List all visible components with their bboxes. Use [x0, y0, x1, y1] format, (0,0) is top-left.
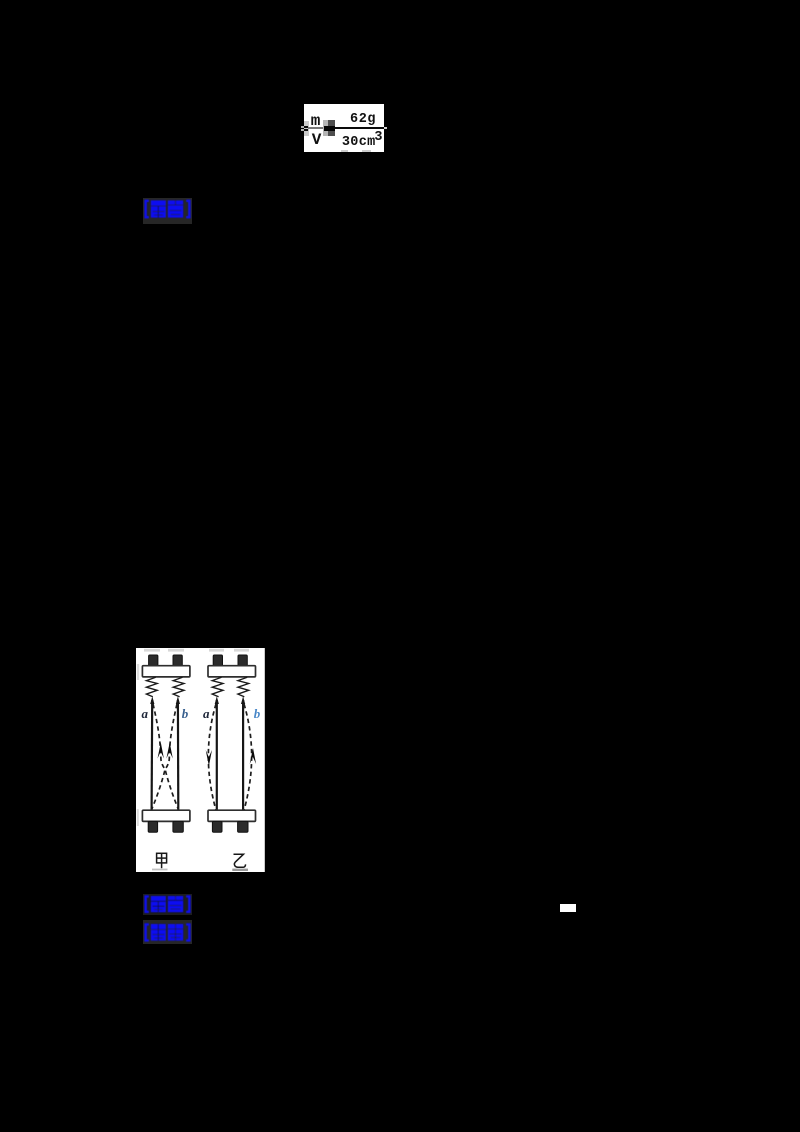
乙 left spring	[212, 677, 223, 696]
caption 乙 (drawn glyph)	[233, 854, 245, 867]
甲 wire a (left vertical wire)	[150, 700, 153, 810]
formula: gray block behind first =	[304, 121, 309, 136]
svg-text:b: b	[254, 706, 261, 721]
gray streak left edge upper	[137, 664, 139, 680]
formula: gray smudges bottom edge	[341, 150, 348, 152]
甲 bottom clamp bar	[142, 810, 189, 821]
甲 wire b top arrowhead	[176, 696, 180, 704]
甲 top clamp bar	[142, 665, 189, 676]
formula: fraction bar pale tick outside right edge	[384, 127, 387, 129]
乙 bottom terminal left	[212, 821, 222, 832]
甲 top terminal right	[173, 655, 182, 667]
physics figure	[136, 648, 265, 872]
svg-text:b: b	[182, 706, 189, 721]
乙 wire b (right vertical wire)	[242, 700, 244, 810]
formula: first = sign	[304, 126, 308, 128]
caption 乙 gray underline	[232, 868, 248, 870]
甲 wire b (right vertical wire)	[177, 700, 180, 810]
甲 bottom terminal left	[148, 821, 157, 832]
乙 top terminal right	[238, 655, 247, 667]
formula: m/V fraction bar	[308, 127, 327, 128]
formula: denominator V	[312, 132, 322, 148]
formula image white background	[304, 104, 384, 153]
乙 current arrow on dashed b (up)	[249, 748, 255, 764]
formula: pale = tick outside left edge	[301, 126, 304, 128]
blank answer white dash	[560, 904, 576, 912]
caption 甲 gray underline	[152, 868, 167, 870]
answer label 2 【答案】 (blue, drawn as vector glyph blob)	[143, 894, 193, 915]
甲 dashed displaced wire (left-top to right-bottom)	[153, 704, 178, 809]
乙 top clamp bar	[208, 665, 255, 676]
formula: superscript 3	[374, 131, 382, 145]
乙 bottom terminal right	[237, 821, 247, 832]
乙 dashed displaced wire a (bulges left)	[208, 704, 216, 809]
formula: denominator 30cm	[342, 136, 376, 150]
svg-text:a: a	[203, 706, 210, 721]
乙 dashed displaced wire b (bulges right)	[244, 704, 252, 809]
乙 wire a (left vertical wire)	[215, 700, 217, 810]
乙 wire b top arrowhead	[241, 696, 245, 704]
甲 wire a top arrowhead	[150, 696, 154, 704]
甲 current arrow on left dashed wire (up)	[157, 742, 163, 758]
formula: numerator 62g	[350, 113, 376, 127]
caption 甲 (drawn glyph)	[156, 853, 166, 868]
answer label 3 【解析】 (blue, drawn as vector glyph blob)	[143, 920, 193, 944]
甲 bottom terminal right	[173, 821, 183, 832]
figure white background	[136, 648, 265, 872]
乙 right spring	[238, 677, 249, 696]
formula: gray blocks behind second =	[323, 120, 328, 136]
formula: numerator m	[311, 113, 321, 129]
甲 top terminal left	[148, 655, 157, 667]
乙 current arrow on dashed a (down)	[205, 750, 211, 766]
甲 dashed displaced wire (right-top to left-bottom)	[152, 704, 177, 809]
甲 left spring	[146, 677, 157, 696]
gray smudges top edge	[144, 649, 249, 652]
answer label 1 【答案】 (blue, drawn as vector glyph blob)	[143, 198, 193, 224]
formula: main fraction bar	[335, 127, 384, 129]
乙 bottom clamp bar	[208, 810, 255, 821]
甲 right spring	[173, 677, 184, 696]
甲 current arrow on right dashed wire (up)	[166, 742, 172, 758]
乙 top terminal left	[213, 655, 222, 667]
svg-text:a: a	[141, 706, 148, 721]
乙 wire a top arrowhead	[214, 696, 218, 704]
gray streak left edge lower	[137, 809, 139, 826]
formula: second bold = sign	[324, 126, 335, 129]
